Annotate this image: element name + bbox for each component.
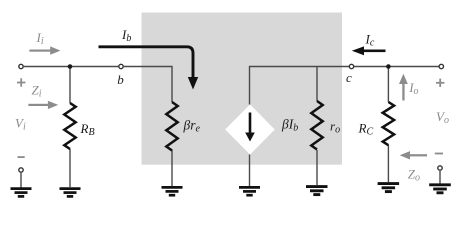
plus sign output [436, 79, 444, 87]
wire: RB bottom lead [69, 149, 71, 187]
dependent source arrow [249, 113, 252, 136]
wire: beta-re bottom lead [171, 150, 173, 186]
resistor RC [383, 102, 394, 145]
output terminal (+) circle [439, 64, 443, 68]
impedance arrow Zo [400, 151, 427, 159]
wire: ro bottom lead [316, 150, 318, 185]
node c circle [349, 64, 353, 68]
ground at Vo minus terminal [429, 185, 451, 193]
wire: ro top lead [316, 67, 318, 102]
ground at Vi minus terminal [11, 189, 32, 197]
ground below beta-re [162, 187, 183, 195]
current arrow Io [399, 74, 408, 101]
output terminal (-) circle [438, 166, 442, 170]
wire: dependent source bottom lead [249, 155, 251, 187]
node junction dot above RB [68, 64, 73, 69]
dependent current source diamond [225, 105, 275, 155]
wire: RC bottom lead [387, 145, 389, 182]
minus sign input [18, 156, 25, 158]
current arrow Ic (into collector) [362, 50, 386, 53]
ground below RB [60, 189, 81, 197]
impedance arrow Zi [28, 101, 58, 109]
wire: node b to beta-re corner and down [124, 67, 172, 103]
input terminal (+) circle [19, 64, 23, 68]
wire: left terminal to node b [24, 66, 119, 68]
wire: Vi minus terminal lead [20, 173, 22, 188]
node b circle [119, 64, 123, 68]
minus sign output [435, 153, 443, 155]
current arrow Ii [29, 46, 60, 54]
transistor model shaded box [142, 13, 343, 165]
wire: dependent source top lead [250, 67, 439, 105]
plus sign input [17, 78, 25, 86]
wire: RC top lead [387, 67, 389, 103]
ground below dependent source [239, 187, 260, 195]
wire: RB top lead [69, 67, 71, 104]
resistor beta-re [166, 102, 177, 151]
ground below RC [378, 184, 400, 192]
current arrow Ib (into base) [99, 47, 194, 78]
svg-text:b: b [117, 72, 124, 87]
wire: Vo minus terminal lead [439, 171, 441, 185]
svg-text:c: c [346, 70, 352, 85]
node junction dot above RC [386, 64, 391, 69]
ground below ro [306, 187, 328, 195]
resistor ro [311, 101, 322, 150]
input terminal (-) circle [19, 168, 23, 172]
resistor RB [64, 103, 75, 149]
